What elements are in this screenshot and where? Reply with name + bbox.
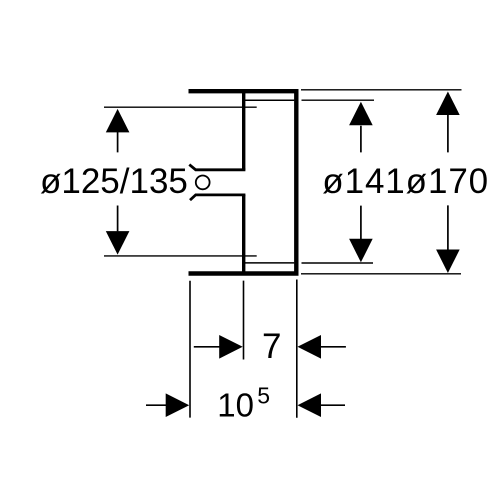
svg-text:ø125/135: ø125/135 bbox=[40, 162, 188, 201]
svg-text:7: 7 bbox=[262, 327, 281, 366]
svg-text:10: 10 bbox=[217, 386, 254, 423]
svg-text:ø141ø170: ø141ø170 bbox=[322, 162, 489, 201]
svg-text:5: 5 bbox=[257, 383, 270, 409]
